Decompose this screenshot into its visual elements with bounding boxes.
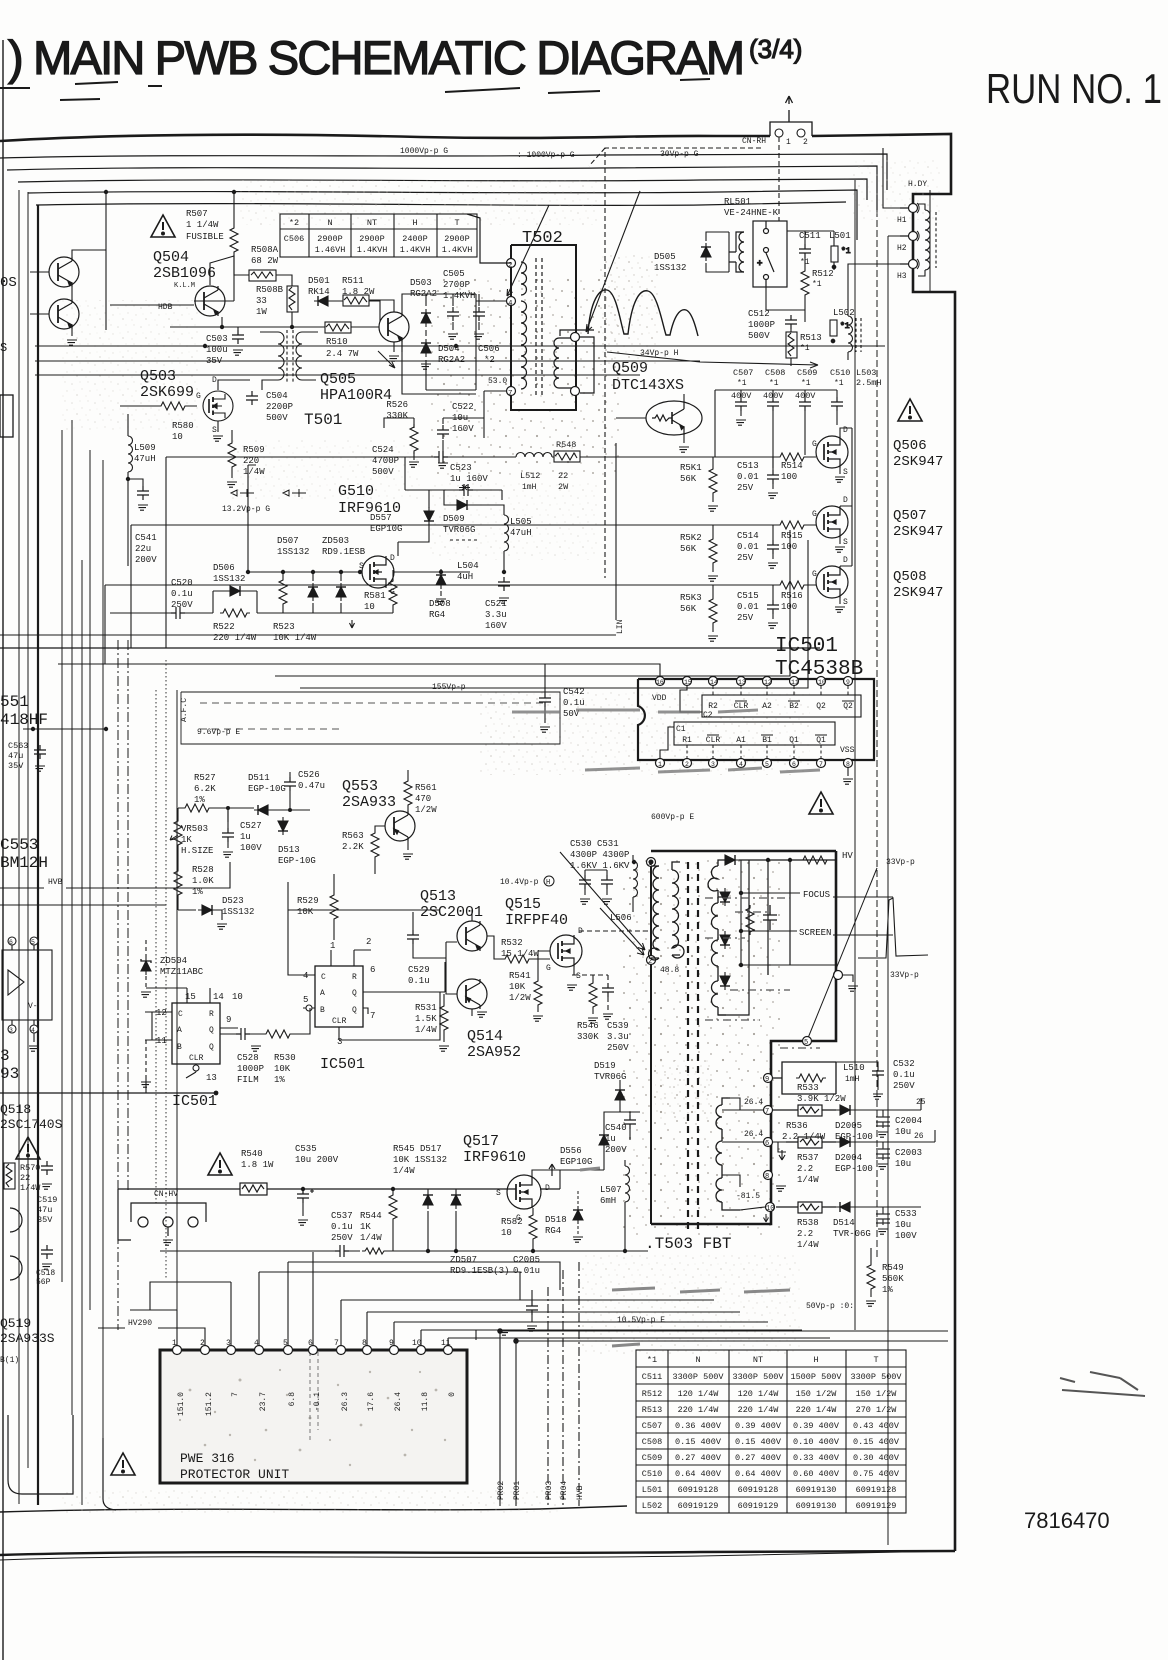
svg-text:RUN NO. 1: RUN NO. 1 bbox=[986, 65, 1162, 112]
node arrow A to T502 sec pin bbox=[586, 191, 640, 332]
transistor Q519 circle partial bbox=[10, 1256, 22, 1280]
svg-text:C: C bbox=[178, 1010, 183, 1019]
inductor FBT primary coil1 bbox=[649, 866, 659, 960]
ground C530 bbox=[580, 899, 590, 904]
svg-text:220 1/4W: 220 1/4W bbox=[796, 1405, 838, 1415]
node dashed segment over L504 bbox=[450, 539, 478, 541]
svg-text:1000P: 1000P bbox=[748, 320, 775, 330]
svg-text:2SB1096: 2SB1096 bbox=[153, 265, 216, 282]
svg-text:HDB: HDB bbox=[158, 303, 173, 312]
pin PWE 9 bbox=[390, 1346, 399, 1355]
svg-text:22: 22 bbox=[20, 1173, 30, 1183]
op-amp FF2 box bbox=[315, 966, 363, 1027]
svg-text:D: D bbox=[843, 496, 848, 505]
pin PWE 3 bbox=[227, 1346, 236, 1355]
pin right-top T502 bbox=[571, 333, 580, 342]
svg-text:FOCUS: FOCUS bbox=[803, 890, 830, 900]
svg-text:1SS132: 1SS132 bbox=[213, 574, 245, 584]
capacitor C509 bbox=[799, 397, 811, 411]
inductor L507 bbox=[625, 1166, 630, 1202]
wire relay to C511/L501 bbox=[766, 231, 834, 322]
svg-text:0.15 400V: 0.15 400V bbox=[735, 1437, 782, 1447]
svg-text:2.4 7W: 2.4 7W bbox=[326, 349, 359, 359]
diode D523 bbox=[198, 905, 216, 915]
wire L505 bbox=[503, 551, 505, 572]
svg-text:R508B: R508B bbox=[256, 285, 284, 295]
svg-text:500V: 500V bbox=[372, 467, 394, 477]
svg-text:*1: *1 bbox=[647, 1355, 657, 1365]
resistor R580 bbox=[158, 402, 188, 410]
svg-text:R580: R580 bbox=[172, 421, 194, 431]
pin 16 bbox=[656, 677, 665, 686]
pin PWE 2 bbox=[201, 1346, 210, 1355]
capacitor C518 bbox=[41, 1245, 53, 1259]
svg-text:2W: 2W bbox=[558, 482, 569, 492]
svg-text:2900P: 2900P bbox=[359, 234, 385, 244]
node arrow B to T502 pin4 bbox=[507, 205, 549, 296]
svg-text:330K: 330K bbox=[386, 411, 408, 421]
svg-text:Q553: Q553 bbox=[342, 778, 378, 795]
svg-text:H: H bbox=[813, 1355, 818, 1365]
wire FBT left vertical bbox=[650, 867, 652, 1224]
resistor R545 bbox=[389, 1192, 397, 1222]
svg-text:VSS: VSS bbox=[840, 746, 855, 755]
wire L507 bbox=[624, 1160, 626, 1251]
inductor FBT primary coil2 bbox=[672, 862, 684, 958]
svg-text:PR03: PR03 bbox=[545, 1481, 554, 1500]
inductor FBT secondary w3 bbox=[712, 934, 719, 974]
node smudge bars bottom bbox=[580, 1168, 790, 1346]
svg-text:47uH: 47uH bbox=[510, 528, 532, 538]
wire C540/D519 bbox=[620, 1080, 640, 1140]
diode D505 bbox=[701, 243, 711, 261]
node FOCUS label bbox=[741, 860, 893, 965]
svg-text:6: 6 bbox=[370, 965, 375, 975]
svg-text:2SA933S: 2SA933S bbox=[0, 1331, 55, 1346]
resistor R530 bbox=[263, 1030, 293, 1038]
inductor L512 bbox=[516, 453, 552, 458]
capacitor C513 bbox=[767, 470, 779, 484]
svg-text:1500P 500V: 1500P 500V bbox=[790, 1372, 842, 1382]
svg-text:R544: R544 bbox=[360, 1211, 382, 1221]
svg-text:10K 1SS132: 10K 1SS132 bbox=[393, 1155, 447, 1165]
svg-text:D557: D557 bbox=[370, 513, 392, 523]
svg-text:1: 1 bbox=[172, 1339, 177, 1348]
svg-text:15 1/4W: 15 1/4W bbox=[501, 949, 539, 959]
svg-text:ZD507: ZD507 bbox=[450, 1255, 477, 1265]
wire FOCUS/SCREEN join bbox=[741, 965, 838, 975]
svg-text:270 1/2W: 270 1/2W bbox=[856, 1405, 898, 1415]
svg-text:FUSIBLE: FUSIBLE bbox=[186, 232, 224, 242]
svg-text:9.6Vp-p E: 9.6Vp-p E bbox=[197, 728, 240, 737]
pin 5 bbox=[763, 759, 772, 768]
svg-text:HVB: HVB bbox=[576, 1485, 585, 1500]
pin PWE 11 bbox=[444, 1346, 453, 1355]
svg-text:RD9.1ESB: RD9.1ESB bbox=[322, 547, 366, 557]
svg-text:0.64 400V: 0.64 400V bbox=[735, 1469, 782, 1479]
capacitor C563 bbox=[34, 745, 46, 759]
svg-text:*2: *2 bbox=[484, 355, 495, 365]
svg-text:68 2W: 68 2W bbox=[251, 256, 279, 266]
svg-text:10u 200V: 10u 200V bbox=[295, 1155, 339, 1165]
mosfet Q508 bbox=[816, 566, 848, 598]
svg-text:22u: 22u bbox=[135, 544, 151, 554]
svg-text:2200P: 2200P bbox=[266, 402, 293, 412]
resistor R510 bbox=[300, 322, 372, 333]
resistor R548 (boxed) bbox=[552, 451, 584, 462]
svg-text:1SS132: 1SS132 bbox=[222, 907, 254, 917]
node CN-RH connector bbox=[589, 96, 812, 578]
svg-text:C519: C519 bbox=[37, 1195, 57, 1205]
svg-text:C553: C553 bbox=[0, 836, 38, 854]
svg-text:C518: C518 bbox=[36, 1269, 55, 1278]
svg-text:1SS132: 1SS132 bbox=[654, 263, 686, 273]
svg-text:33Vp-p: 33Vp-p bbox=[890, 971, 919, 980]
resistor R516 bbox=[777, 581, 807, 589]
svg-text:2SK947: 2SK947 bbox=[893, 585, 943, 601]
warning triangle below IC bbox=[809, 792, 833, 814]
svg-text:Q: Q bbox=[209, 1043, 214, 1052]
wire border line4 bbox=[28, 190, 857, 240]
ground D508 bbox=[436, 599, 446, 604]
resistor R570 (boxed) bbox=[4, 1163, 15, 1189]
svg-text:3300P 500V: 3300P 500V bbox=[850, 1372, 902, 1382]
svg-text:R523: R523 bbox=[273, 622, 295, 632]
svg-text:C533: C533 bbox=[895, 1209, 917, 1219]
svg-text:1/2W: 1/2W bbox=[415, 805, 437, 815]
svg-text:R531: R531 bbox=[415, 1003, 437, 1013]
svg-text:*1: *1 bbox=[841, 247, 851, 256]
svg-text:R514: R514 bbox=[781, 461, 803, 471]
wire bottom inner border bbox=[0, 1506, 627, 1512]
pin 11 bbox=[790, 677, 799, 686]
svg-text:250V: 250V bbox=[171, 600, 193, 610]
ground R531 bbox=[439, 1046, 449, 1051]
svg-text:Q1: Q1 bbox=[789, 736, 799, 745]
svg-text:R510: R510 bbox=[326, 337, 348, 347]
wire bottom outer border bbox=[0, 1551, 955, 1560]
pin H2 bbox=[897, 231, 919, 253]
svg-text:7: 7 bbox=[819, 761, 823, 768]
svg-text:RL501: RL501 bbox=[724, 197, 751, 207]
svg-text:10K: 10K bbox=[274, 1064, 291, 1074]
ground C535 bbox=[298, 1220, 308, 1225]
svg-text:*1: *1 bbox=[769, 379, 779, 388]
svg-text:1.0K: 1.0K bbox=[192, 876, 214, 886]
svg-text:5: 5 bbox=[283, 1339, 288, 1348]
svg-text:C511: C511 bbox=[642, 1372, 662, 1382]
svg-text:160V: 160V bbox=[485, 621, 507, 631]
node dash-dot noise rows bbox=[705, 898, 820, 1048]
svg-text:R582: R582 bbox=[501, 1217, 523, 1227]
svg-text:2SK699: 2SK699 bbox=[140, 384, 194, 401]
node FBT core dashes bbox=[688, 862, 698, 1230]
pin PWE 6 bbox=[309, 1346, 318, 1355]
svg-text:EGP-10G: EGP-10G bbox=[248, 784, 286, 794]
resistor R5K1 bbox=[709, 466, 717, 496]
svg-text:C514: C514 bbox=[737, 531, 759, 541]
wire d503 d504 column bbox=[426, 294, 476, 390]
svg-text:R581: R581 bbox=[364, 591, 386, 601]
inductor L509 bbox=[128, 436, 133, 472]
svg-text:9: 9 bbox=[389, 1339, 394, 1348]
svg-text:2.5mH: 2.5mH bbox=[856, 378, 882, 388]
svg-text:1: 1 bbox=[786, 138, 791, 147]
capacitor C511 bbox=[799, 244, 811, 258]
wire C524 rail bbox=[330, 457, 616, 490]
svg-text:C513: C513 bbox=[737, 461, 759, 471]
wire PWE pin risers bbox=[98, 1252, 830, 1345]
svg-text:0.01: 0.01 bbox=[737, 472, 759, 482]
diode D517 bbox=[423, 1191, 433, 1209]
svg-text:1.46VH: 1.46VH bbox=[315, 245, 346, 255]
svg-text:R546: R546 bbox=[577, 1021, 599, 1031]
svg-text:MTZ11ABC: MTZ11ABC bbox=[160, 967, 204, 977]
wire R527 bbox=[178, 808, 254, 822]
wire D506 loop bbox=[213, 591, 257, 613]
svg-text:22: 22 bbox=[558, 471, 568, 481]
svg-text:R529: R529 bbox=[297, 896, 319, 906]
svg-text:2SK947: 2SK947 bbox=[893, 524, 943, 540]
svg-text:9: 9 bbox=[846, 679, 850, 686]
svg-text:100V: 100V bbox=[895, 1231, 917, 1241]
capacitor C510 bbox=[831, 397, 843, 411]
svg-text:*1: *1 bbox=[834, 379, 844, 388]
svg-text:220 1/4W: 220 1/4W bbox=[678, 1405, 720, 1415]
svg-text:Q: Q bbox=[352, 1006, 357, 1015]
wire R549 bbox=[870, 1248, 872, 1297]
ground QB bbox=[67, 340, 77, 345]
svg-text:2: 2 bbox=[366, 937, 371, 947]
svg-text:5: 5 bbox=[31, 939, 35, 946]
svg-text:Q: Q bbox=[209, 1026, 214, 1035]
svg-text:TVR-06G: TVR-06G bbox=[833, 1229, 871, 1239]
svg-text:200V: 200V bbox=[605, 1145, 627, 1155]
wire L506 bbox=[632, 855, 634, 912]
inductor FBT lower w3 bbox=[716, 1172, 740, 1210]
svg-text:35V: 35V bbox=[206, 356, 223, 366]
capacitor C515 bbox=[767, 600, 779, 614]
node IC501 inner box 1 bbox=[674, 722, 835, 745]
ground Q514 bbox=[477, 1012, 487, 1017]
svg-text:0.1u: 0.1u bbox=[408, 976, 430, 986]
node C506 option table bbox=[280, 214, 477, 257]
capacitor C541 bbox=[137, 486, 149, 500]
wire Q507 row bbox=[668, 455, 840, 572]
capacitor C537 bbox=[335, 1245, 349, 1257]
svg-text:33: 33 bbox=[256, 296, 267, 306]
svg-text:1/4W: 1/4W bbox=[797, 1240, 819, 1250]
svg-text:10K: 10K bbox=[297, 907, 314, 917]
wire border line5 bbox=[36, 202, 846, 205]
node long diagonal callout1 bbox=[808, 868, 877, 1038]
svg-text:L502: L502 bbox=[833, 308, 855, 318]
wire Q505 collector rail bbox=[402, 294, 476, 346]
warning triangle PWE bbox=[111, 1453, 135, 1475]
svg-text:D556: D556 bbox=[560, 1146, 582, 1156]
svg-text:Q518: Q518 bbox=[0, 1102, 31, 1117]
wire bottom collectors bbox=[494, 1330, 1005, 1347]
diode D501 bbox=[314, 296, 332, 306]
resistor R528 bbox=[174, 868, 182, 898]
wire Q508 row bbox=[640, 585, 840, 632]
pin 2 FBT bbox=[647, 956, 656, 965]
svg-text:10: 10 bbox=[818, 679, 826, 686]
inductor FBT secondary w4 bbox=[712, 974, 727, 1015]
wire rail y905 bbox=[0, 904, 166, 906]
svg-text:2SA933: 2SA933 bbox=[342, 794, 396, 811]
wire comparator out bbox=[33, 1033, 35, 1042]
wire pin9 loop bbox=[773, 1062, 860, 1094]
svg-text:35V: 35V bbox=[37, 1215, 53, 1225]
resistor HV bbox=[800, 856, 830, 864]
op-amp left comparator box bbox=[2, 937, 52, 1033]
ground R549 bbox=[866, 1301, 876, 1306]
wire Q517 drain up bbox=[532, 1112, 620, 1189]
svg-text:*1: *1 bbox=[812, 280, 822, 289]
svg-text:R538: R538 bbox=[797, 1218, 819, 1228]
svg-text:C529: C529 bbox=[408, 965, 430, 975]
svg-text:Q508: Q508 bbox=[893, 569, 927, 585]
svg-text:56K: 56K bbox=[680, 604, 697, 614]
ground C2003 bbox=[878, 1164, 888, 1169]
zener ZD504 bbox=[141, 957, 151, 975]
op-amp FF1 box bbox=[172, 1003, 220, 1064]
capacitor C503 bbox=[232, 330, 244, 344]
svg-text:C524: C524 bbox=[372, 445, 394, 455]
svg-text:RG4: RG4 bbox=[429, 610, 445, 620]
svg-text:6.2K: 6.2K bbox=[194, 784, 216, 794]
wire C523 rail bbox=[405, 490, 502, 500]
svg-text:25V: 25V bbox=[737, 483, 754, 493]
pin 4 T502 bbox=[507, 297, 516, 306]
transformer T502 primary coil bbox=[521, 258, 542, 395]
wire HV290 line bbox=[98, 1328, 205, 1345]
resistor R582 bbox=[529, 1212, 537, 1242]
pin PWE 4 bbox=[255, 1346, 264, 1355]
ground C541 bbox=[138, 505, 148, 510]
svg-text:R1: R1 bbox=[682, 736, 692, 745]
pin right-bot T502 bbox=[571, 387, 580, 396]
ground C533 bbox=[878, 1229, 888, 1234]
transistor Q518 circle partial bbox=[10, 1208, 22, 1232]
svg-text:3.3u: 3.3u bbox=[607, 1032, 629, 1042]
svg-text:NT: NT bbox=[753, 1355, 763, 1365]
node SCREEN label bbox=[741, 931, 893, 935]
svg-text:10: 10 bbox=[364, 602, 375, 612]
svg-text:RD9.1ESB(3): RD9.1ESB(3) bbox=[450, 1266, 509, 1276]
svg-text:VR503: VR503 bbox=[181, 824, 208, 834]
wire R508 net bbox=[170, 255, 325, 330]
svg-text:Q509: Q509 bbox=[612, 360, 648, 377]
resistor R509 bbox=[228, 440, 236, 470]
transistor Q509 bbox=[646, 401, 702, 435]
svg-text:600Vp-p E: 600Vp-p E bbox=[651, 813, 694, 822]
svg-text:PR02: PR02 bbox=[497, 1481, 506, 1500]
svg-text:0.60 400V: 0.60 400V bbox=[793, 1469, 840, 1479]
wire C529 bbox=[413, 912, 457, 994]
wire HVB rail bbox=[0, 862, 230, 888]
svg-text:1/4W: 1/4W bbox=[360, 1233, 382, 1243]
svg-text:1/2W: 1/2W bbox=[509, 993, 531, 1003]
capacitor C522 bbox=[437, 425, 449, 439]
node PWE pin values rotated bbox=[177, 1392, 457, 1416]
node PWE box speckle bbox=[160, 1350, 467, 1483]
wire R541 bbox=[537, 1008, 539, 1012]
svg-text:93: 93 bbox=[0, 1065, 19, 1083]
svg-text:D513: D513 bbox=[278, 845, 300, 855]
pin 13 bbox=[737, 677, 746, 686]
wire pwe link rows bbox=[130, 1262, 830, 1338]
svg-text:*1: *1 bbox=[800, 344, 810, 353]
svg-text:60919130: 60919130 bbox=[796, 1485, 837, 1495]
wire q504 rail bbox=[456, 192, 458, 204]
ground CN-HV bbox=[163, 1240, 173, 1245]
diode FBT d3 bbox=[720, 931, 730, 949]
svg-text:26.4: 26.4 bbox=[394, 1392, 403, 1411]
pin PWE 5 bbox=[284, 1346, 293, 1355]
wire L509 down bbox=[127, 414, 129, 566]
node arrow C to C510 bbox=[607, 352, 818, 368]
svg-text:R540: R540 bbox=[241, 1149, 263, 1159]
svg-text:Q: Q bbox=[352, 989, 357, 998]
wire pin-right ground bbox=[843, 975, 853, 982]
diode D508 bbox=[436, 571, 446, 589]
ground PWE right bbox=[476, 1330, 500, 1340]
svg-text:60919128: 60919128 bbox=[678, 1485, 719, 1495]
svg-text:H: H bbox=[412, 218, 417, 228]
wire Q515 S bbox=[572, 967, 574, 975]
svg-text:3300P 500V: 3300P 500V bbox=[732, 1372, 784, 1382]
wire mid horizontal rail2 bbox=[58, 663, 624, 665]
svg-text:4: 4 bbox=[254, 1339, 259, 1348]
capacitor C527 bbox=[222, 828, 234, 842]
svg-text:C2: C2 bbox=[703, 711, 713, 720]
svg-text:6: 6 bbox=[9, 939, 13, 946]
svg-text:10u: 10u bbox=[895, 1127, 911, 1137]
svg-text:1u 160V: 1u 160V bbox=[450, 474, 488, 484]
wire inner right vertical bbox=[929, 190, 931, 292]
svg-text:C504: C504 bbox=[266, 391, 288, 401]
svg-text:16: 16 bbox=[656, 679, 664, 686]
wire long loop to Q513 bbox=[339, 962, 445, 1040]
svg-text:100V: 100V bbox=[240, 843, 262, 853]
mosfet G510 body bbox=[362, 556, 394, 588]
svg-text:R537: R537 bbox=[797, 1153, 819, 1163]
svg-text:7: 7 bbox=[370, 1011, 375, 1021]
diode FBT d1 bbox=[721, 855, 739, 865]
svg-text:PR01: PR01 bbox=[513, 1481, 522, 1500]
resistor R513 (boxed vertical) bbox=[786, 329, 797, 366]
svg-text:1.4KVH: 1.4KVH bbox=[442, 245, 473, 255]
svg-text:Q1: Q1 bbox=[816, 736, 826, 745]
svg-text:B: B bbox=[177, 1043, 182, 1052]
resistor R561 bbox=[404, 778, 412, 808]
ground D504 bbox=[421, 364, 431, 369]
ground Q505 bbox=[389, 356, 399, 361]
svg-text:26.3: 26.3 bbox=[341, 1392, 350, 1411]
svg-text:) MAIN PWB SCHEMATIC DIAGRAM: ) MAIN PWB SCHEMATIC DIAGRAM bbox=[8, 31, 745, 84]
resistor R5K3 bbox=[709, 596, 717, 626]
wire Q505 base bbox=[369, 300, 402, 352]
svg-text:1%: 1% bbox=[274, 1075, 285, 1085]
svg-text:D514: D514 bbox=[833, 1218, 855, 1228]
capacitor R570 side bbox=[41, 1161, 53, 1175]
svg-text:330K: 330K bbox=[577, 1032, 599, 1042]
svg-text:1000P: 1000P bbox=[237, 1064, 264, 1074]
svg-text:3: 3 bbox=[0, 1047, 10, 1065]
svg-text:551: 551 bbox=[0, 693, 29, 711]
